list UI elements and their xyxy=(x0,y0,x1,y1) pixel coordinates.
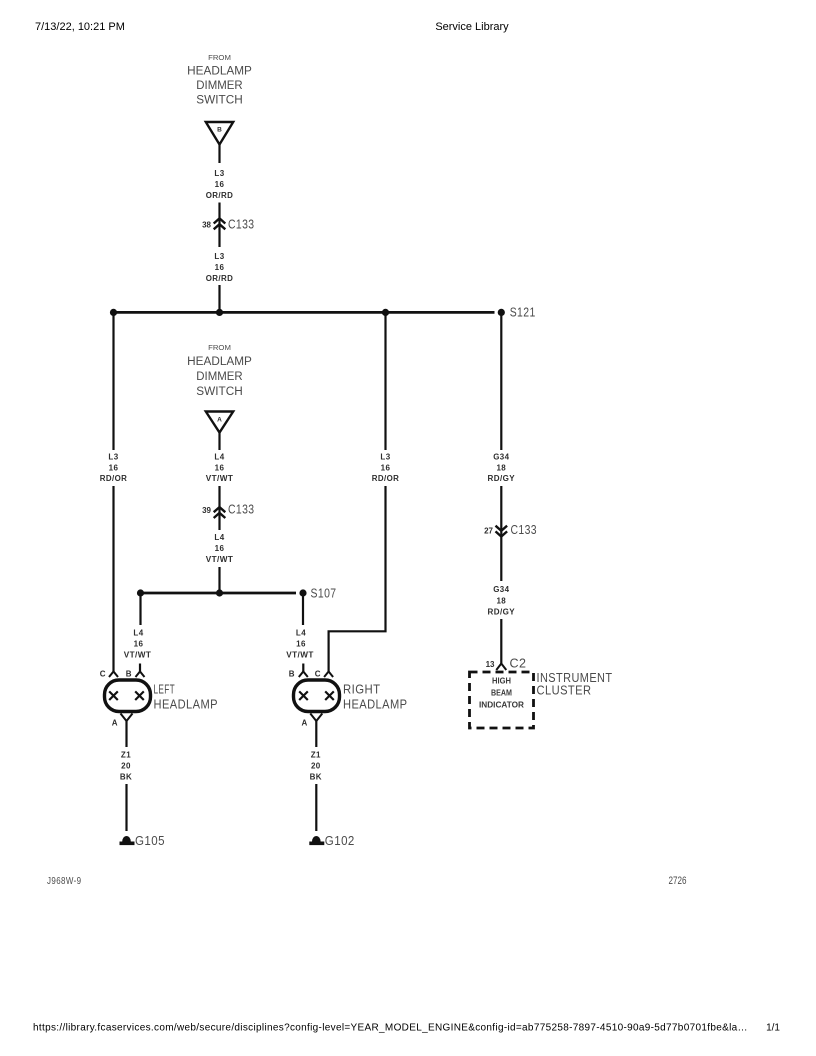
svg-text:A: A xyxy=(112,719,118,728)
left headlamp bulb X (high beam) xyxy=(135,691,144,700)
svg-text:C133: C133 xyxy=(511,522,538,537)
svg-text:L3: L3 xyxy=(214,169,224,178)
svg-text:BK: BK xyxy=(120,773,132,782)
svg-text:RD/GY: RD/GY xyxy=(488,608,516,617)
svg-text:C2: C2 xyxy=(510,656,527,671)
svg-text:C133: C133 xyxy=(228,217,255,232)
wire into instrument cluster pin 13 xyxy=(500,619,502,664)
svg-text:18: 18 xyxy=(496,464,506,473)
junction dot S107 left xyxy=(137,589,144,596)
svg-text:16: 16 xyxy=(215,263,225,272)
splice bus S121 xyxy=(114,311,495,314)
wire left branch down from S121 xyxy=(112,312,114,450)
svg-text:L4: L4 xyxy=(133,629,143,638)
connector triangle B (from headlamp dimmer switch) xyxy=(206,122,233,145)
right headlamp component oval xyxy=(294,680,340,712)
right headlamp pin B terminal xyxy=(289,670,308,679)
svg-text:RD/OR: RD/OR xyxy=(100,474,128,483)
wire stub into left headlamp pin B xyxy=(139,664,141,672)
svg-text:FROM: FROM xyxy=(208,345,231,352)
svg-text:HEADLAMP: HEADLAMP xyxy=(154,697,219,712)
svg-text:OR/RD: OR/RD xyxy=(206,274,234,283)
svg-text:7/13/22, 10:21 PM: 7/13/22, 10:21 PM xyxy=(35,21,125,33)
junction dot S121 right headlamp feed xyxy=(382,309,389,316)
svg-text:20: 20 xyxy=(311,762,321,771)
right headlamp bulb X (low beam) xyxy=(299,691,308,700)
svg-text:RD/OR: RD/OR xyxy=(372,474,400,483)
svg-text:38: 38 xyxy=(202,221,211,230)
svg-text:Service Library: Service Library xyxy=(435,21,509,33)
svg-text:VT/WT: VT/WT xyxy=(286,651,314,660)
svg-text:S121: S121 xyxy=(510,305,536,320)
right headlamp pin C terminal xyxy=(315,670,333,679)
svg-text:BK: BK xyxy=(310,773,322,782)
svg-text:Z1: Z1 xyxy=(121,751,131,760)
svg-text:L4: L4 xyxy=(214,453,224,462)
svg-text:HIGH: HIGH xyxy=(492,676,511,686)
wire label L4 16 VT/WT (left headlamp B) xyxy=(124,629,152,660)
svg-text:L3: L3 xyxy=(108,453,118,462)
svg-text:16: 16 xyxy=(109,464,119,473)
svg-text:SWITCH: SWITCH xyxy=(196,384,242,398)
source label: FROM HEADLAMP DIMMER SWITCH (middle) xyxy=(187,345,252,398)
svg-text:B: B xyxy=(289,670,295,679)
wire label G34 18 RD/GY (below C133) xyxy=(488,585,516,617)
svg-text:DIMMER: DIMMER xyxy=(196,78,243,92)
svg-text:DIMMER: DIMMER xyxy=(196,369,243,383)
wire label G34 18 RD/GY (above C133) xyxy=(488,453,516,484)
svg-text:27: 27 xyxy=(484,527,493,536)
svg-text:2726: 2726 xyxy=(669,875,687,887)
svg-text:HEADLAMP: HEADLAMP xyxy=(187,354,252,368)
svg-text:13: 13 xyxy=(486,660,495,669)
right headlamp pin A terminal xyxy=(302,714,323,728)
wire label L3 16 OR/RD (lower) xyxy=(206,252,234,283)
svg-text:VT/WT: VT/WT xyxy=(124,651,152,660)
wire into connector C133 pin 39 xyxy=(218,486,220,530)
svg-text:RD/GY: RD/GY xyxy=(488,474,516,483)
wire label L3 16 RD/OR (left branch) xyxy=(100,453,128,484)
wire from S107 right down xyxy=(302,593,304,625)
wire from S107 left down xyxy=(139,593,141,625)
svg-text:G34: G34 xyxy=(493,453,509,462)
wire right headlamp feed down from S121 xyxy=(384,312,386,450)
svg-text:G102: G102 xyxy=(325,833,355,848)
left headlamp bulb X (low beam) xyxy=(109,691,118,700)
wire from triangle B xyxy=(218,145,220,164)
wire from triangle A xyxy=(218,433,220,451)
svg-text:C: C xyxy=(100,670,106,679)
svg-text:18: 18 xyxy=(496,597,506,606)
connector C133 pin 38 (double chevron up) xyxy=(202,217,254,232)
left headlamp component oval xyxy=(105,680,151,712)
svg-text:16: 16 xyxy=(215,464,225,473)
wire label L3 16 OR/RD (upper) xyxy=(206,169,234,200)
svg-text:C: C xyxy=(315,670,321,679)
svg-text:16: 16 xyxy=(215,544,225,553)
wire label L4 16 VT/WT (right headlamp B) xyxy=(286,629,314,660)
source label: FROM HEADLAMP DIMMER SWITCH (top) xyxy=(187,55,252,107)
instrument cluster dashed box (high beam indicator) xyxy=(470,672,534,728)
wire label L3 16 RD/OR (right headlamp feed) xyxy=(372,453,400,484)
svg-text:Z1: Z1 xyxy=(311,751,321,760)
svg-text:L4: L4 xyxy=(214,533,224,542)
splice bus S107 xyxy=(141,592,297,595)
svg-text:BEAM: BEAM xyxy=(491,688,512,698)
svg-text:SWITCH: SWITCH xyxy=(196,93,242,107)
svg-text:J968W-9: J968W-9 xyxy=(47,876,82,887)
svg-text:https://library.fcaservices.co: https://library.fcaservices.com/web/secu… xyxy=(33,1023,748,1034)
junction dot S121 end xyxy=(498,309,505,316)
ground G105 symbol xyxy=(120,833,166,848)
wire elbow to right headlamp pin C xyxy=(329,486,386,672)
svg-text:HEADLAMP: HEADLAMP xyxy=(343,697,408,712)
junction dot S107 right xyxy=(299,589,306,596)
wire to ground G102 xyxy=(315,784,317,831)
svg-text:RIGHT: RIGHT xyxy=(343,682,381,697)
svg-text:B: B xyxy=(217,127,222,134)
svg-text:L3: L3 xyxy=(380,453,390,462)
svg-text:C133: C133 xyxy=(228,502,255,517)
wire label L4 16 VT/WT (above C133) xyxy=(206,453,234,484)
instrument cluster pin 13 terminal xyxy=(486,656,527,671)
junction dot S121 center feed xyxy=(216,309,223,316)
svg-text:20: 20 xyxy=(121,762,131,771)
right headlamp bulb X (high beam) xyxy=(325,691,334,700)
ground G102 symbol xyxy=(309,833,355,848)
svg-text:VT/WT: VT/WT xyxy=(206,555,234,564)
svg-text:S107: S107 xyxy=(311,586,337,601)
svg-text:39: 39 xyxy=(202,506,211,515)
svg-text:OR/RD: OR/RD xyxy=(206,191,234,200)
wire instrument cluster feed down from S121 xyxy=(500,312,502,450)
svg-text:L4: L4 xyxy=(296,629,306,638)
wire label Z1 20 BK (left) xyxy=(120,751,132,782)
junction dot S121 left xyxy=(110,309,117,316)
wire stub into right headlamp pin B xyxy=(302,664,304,672)
left headlamp name label xyxy=(154,682,219,712)
svg-text:LEFT: LEFT xyxy=(154,682,176,697)
left headlamp pin C terminal xyxy=(100,670,118,679)
wire label L4 16 VT/WT (below C133) xyxy=(206,533,234,564)
left headlamp pin A terminal xyxy=(112,714,133,728)
right headlamp name label xyxy=(343,682,408,712)
svg-text:HEADLAMP: HEADLAMP xyxy=(187,64,252,78)
svg-text:G105: G105 xyxy=(135,833,165,848)
wire from left headlamp pin A xyxy=(125,721,127,747)
svg-text:L3: L3 xyxy=(214,252,224,261)
svg-text:16: 16 xyxy=(134,640,144,649)
wire left branch to left headlamp pin C xyxy=(112,486,114,672)
junction dot S107 center xyxy=(216,589,223,596)
connector triangle A (from headlamp dimmer switch) xyxy=(206,412,233,433)
wire into splice S121 xyxy=(218,285,220,312)
svg-text:A: A xyxy=(302,719,308,728)
svg-text:16: 16 xyxy=(296,640,306,649)
wire into connector C133 pin 27 xyxy=(500,486,502,581)
svg-text:16: 16 xyxy=(381,464,391,473)
svg-text:1/1: 1/1 xyxy=(766,1023,780,1034)
wire from right headlamp pin A xyxy=(315,721,317,747)
svg-text:G34: G34 xyxy=(493,585,509,594)
wire into connector C133 pin 38 xyxy=(218,203,220,248)
wire label Z1 20 BK (right) xyxy=(310,751,322,782)
left headlamp pin B terminal xyxy=(126,670,145,679)
connector C133 pin 27 (double chevron down) xyxy=(484,522,537,537)
svg-text:VT/WT: VT/WT xyxy=(206,474,234,483)
wire to ground G105 xyxy=(125,784,127,831)
svg-text:B: B xyxy=(126,670,132,679)
connector C133 pin 39 (double chevron up) xyxy=(202,502,254,519)
svg-text:16: 16 xyxy=(215,180,225,189)
svg-text:INDICATOR: INDICATOR xyxy=(479,700,524,710)
svg-text:A: A xyxy=(217,417,222,424)
wire into splice S107 xyxy=(218,567,220,593)
instrument cluster name label xyxy=(537,670,613,698)
svg-text:CLUSTER: CLUSTER xyxy=(537,683,592,698)
svg-text:FROM: FROM xyxy=(208,55,231,62)
